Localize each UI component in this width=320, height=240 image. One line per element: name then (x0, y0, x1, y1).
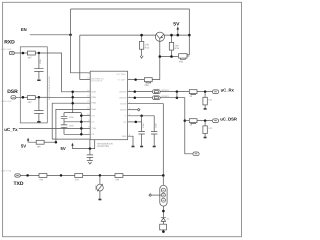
node junction dsr-c (204, 119, 207, 122)
svg-text:R1IN: R1IN (91, 91, 96, 94)
svg-text:GND: GND (122, 135, 127, 138)
resistor R-uCDSR pulldown (204, 121, 206, 137)
svg-text:R2OUT: R2OUT (120, 97, 128, 100)
filter FL1 (152, 90, 160, 94)
wire vertical x70.5 to top rail and down to pin16 (71, 9, 91, 73)
svg-text:10K: 10K (208, 127, 212, 130)
node junction rx-a (134, 90, 137, 93)
node DSR label (7, 89, 18, 95)
svg-text:C1-: C1- (91, 121, 95, 124)
capacitor C-DSR (38, 97, 40, 121)
node junction pullup (55, 141, 58, 144)
svg-text:FB1: FB1 (179, 61, 184, 64)
resistor R-TXD2 (75, 174, 83, 178)
svg-text:100n: 100n (69, 125, 75, 128)
svg-text:R4IN: R4IN (91, 108, 96, 111)
wire RXD into box (23, 52, 28, 54)
wire GND pin corner (128, 136, 133, 146)
filter FL2 (152, 96, 160, 100)
wire VCC pin right (128, 79, 145, 81)
svg-text:5V: 5V (173, 21, 180, 27)
node junction txd-a (26, 174, 29, 177)
node junction rx-c (204, 90, 207, 93)
capacitor C-Vcc (87, 149, 93, 161)
connector pin DSR (11, 96, 16, 99)
svg-text:TXD: TXD (14, 181, 24, 187)
node junction vminus (140, 115, 143, 118)
resistor R-uCRx (189, 90, 197, 94)
node junction tie-5 (80, 121, 83, 124)
svg-text:7: 7 (88, 132, 89, 135)
node TXD label (14, 181, 24, 187)
capacitor C2 pump (61, 122, 68, 135)
node junction 5V (177, 34, 180, 37)
svg-text:12: 12 (87, 100, 89, 103)
wire EN branch corner to chip pin and transistor base (80, 35, 156, 79)
svg-text:uC_DSR: uC_DSR (220, 117, 237, 122)
svg-text:16: 16 (88, 72, 90, 75)
IC U1 right pin labels (120, 91, 128, 139)
node junction jack-gnd (162, 210, 165, 213)
svg-text:R2IN: R2IN (91, 96, 96, 99)
wire row F cap1 bottom (64, 121, 90, 123)
svg-text:T1OUT: T1OUT (120, 103, 128, 106)
IC U1 (90, 71, 127, 140)
wire transistor right to 5V and rail (165, 34, 190, 36)
connector pin aux (193, 152, 199, 156)
connector J2 jack (162, 175, 164, 185)
svg-text:V-: V- (125, 115, 127, 118)
svg-text:13: 13 (87, 95, 89, 98)
capacitor C1 pump (61, 116, 68, 122)
svg-text:10K: 10K (37, 146, 42, 149)
connector pin TXD (15, 174, 20, 177)
resistor R-base (141, 35, 143, 56)
svg-text:470: 470 (115, 179, 120, 182)
wire DSR into box (23, 96, 28, 98)
svg-text:R15: R15 (175, 47, 180, 50)
node junction dsr-a (134, 96, 137, 99)
svg-text:8: 8 (88, 126, 89, 129)
svg-text:9: 9 (88, 119, 89, 122)
svg-text:DSR: DSR (7, 89, 18, 95)
node junction txd-b (60, 174, 63, 177)
svg-text:11: 11 (87, 107, 89, 110)
wire uC_DSR row (185, 120, 190, 122)
svg-text:C2-: C2- (91, 133, 95, 136)
wire top rail (71, 9, 190, 55)
box shield around RXD/DSR filters (20, 47, 47, 123)
svg-text:EN: EN (21, 27, 27, 32)
svg-text:T1IN: T1IN (91, 127, 96, 130)
node junction DSR-a (22, 96, 25, 99)
ground chip right (132, 146, 135, 148)
node junction vcc (134, 78, 137, 81)
node junction power (89, 147, 92, 150)
IC U1 pin numbers (87, 72, 130, 137)
node junction R top (170, 34, 173, 37)
svg-text:DB9-2 RXD: DB9-2 RXD (1, 48, 12, 51)
svg-text:15: 15 (87, 77, 89, 80)
component shell (162, 221, 164, 224)
svg-text:470: 470 (39, 179, 44, 182)
wire uC_Tx row (19, 127, 90, 129)
svg-text:uC_Tx: uC_Tx (4, 127, 18, 132)
svg-text:1K: 1K (190, 95, 193, 98)
resistor R-uCRx pulldown (204, 92, 206, 109)
svg-text:T2OUT: T2OUT (120, 109, 128, 112)
wire T1OUT row to TXD column (128, 104, 164, 176)
resistor R-pullup right (171, 35, 173, 56)
svg-text:R14: R14 (145, 46, 150, 49)
node junction txd-c (99, 174, 102, 177)
node junction R bottom on rail (170, 55, 173, 58)
node junction tie-7 (80, 133, 83, 136)
power 5V pullup arrow (21, 143, 26, 148)
ground under R-uCDSR (204, 137, 207, 139)
ground chip power (87, 161, 93, 165)
node junction tie-3 (71, 102, 74, 105)
wire uC_Rx row (128, 91, 153, 93)
svg-text:100n: 100n (155, 122, 158, 128)
node open diamond (137, 108, 140, 111)
node uC_Tx label (4, 127, 18, 132)
node junction RXD-a (22, 52, 25, 55)
wire tie vertical x72.7 (72, 92, 74, 113)
capacitor C-A (138, 116, 144, 146)
svg-text:C1+: C1+ (91, 115, 96, 118)
node junction DSR-b (38, 96, 41, 99)
node junction RXD-b (38, 52, 41, 55)
node uC_DSR label (220, 117, 237, 122)
net label RXD margin (1, 48, 12, 51)
resistor R-RXD (27, 51, 35, 55)
ground under D1 (98, 199, 101, 201)
IC U1 inner top-left text (91, 73, 126, 83)
connector pin uC_Rx (212, 90, 218, 94)
ground under R-uCRx (204, 108, 207, 110)
power 5V top arrow (173, 21, 180, 27)
connector pin uC_DSR (212, 119, 218, 123)
svg-text:R1OUT: R1OUT (120, 91, 128, 94)
capacitor C-B (151, 132, 157, 146)
svg-text:DB9-6 DSR: DB9-6 DSR (1, 100, 12, 103)
label vertical box text (48, 75, 51, 100)
svg-text:C2-: C2- (123, 121, 127, 124)
node junction tie-6 (80, 127, 83, 130)
wire row E (81, 115, 90, 117)
node junction dsr-row (184, 119, 187, 122)
IC U1 part text (97, 142, 113, 148)
wire chip power stubs (90, 140, 95, 149)
wire row I cap2 bottom (64, 133, 90, 135)
wire V- row (128, 116, 154, 132)
ground under C-DSR (37, 121, 40, 123)
svg-text:V+ CAP: V+ CAP (118, 78, 126, 81)
wire jack bottom (162, 206, 164, 217)
border frame (3, 2, 242, 236)
svg-text:uC_Rx: uC_Rx (221, 88, 235, 93)
node junction EN-rail (69, 34, 72, 37)
node junction rx-b (176, 90, 179, 93)
svg-text:R3IN: R3IN (91, 102, 96, 105)
svg-text:MAX3232ECAI: MAX3232ECAI (97, 142, 113, 145)
resistor R-TXD1 (39, 174, 47, 178)
node junction tie-4 (80, 114, 83, 117)
svg-text:VCC GND: VCC GND (116, 73, 126, 76)
node junction tie-1 (71, 91, 74, 94)
svg-text:DB9-3 TXD: DB9-3 TXD (1, 170, 12, 173)
svg-text:FB2: FB2 (145, 84, 150, 87)
svg-text:INPUT FILTER NETWORK: INPUT FILTER NETWORK (48, 75, 51, 100)
svg-text:14: 14 (87, 89, 89, 92)
svg-text:5V: 5V (21, 143, 26, 148)
connector pin RXD (9, 51, 14, 54)
svg-text:X2: X2 (167, 217, 170, 220)
node junction base resistor (140, 34, 143, 37)
svg-text:EXTCAP 5V: EXTCAP 5V (91, 80, 103, 83)
wire tie vertical x81.3 (80, 113, 82, 135)
diode D1 transil (99, 175, 101, 184)
ferrite FB2 (144, 78, 152, 82)
svg-text:100n: 100n (142, 122, 145, 128)
wire row4 corner (56, 109, 90, 142)
wire uC_DSR source row (128, 97, 153, 99)
ground under C-B (153, 146, 156, 148)
svg-text:100n: 100n (69, 116, 75, 119)
node junction stem-rail (159, 55, 162, 58)
svg-text:RS232TRX: RS232TRX (97, 145, 109, 148)
ground under C-RXD (37, 80, 40, 82)
wire C2- row join (128, 121, 142, 123)
node junction tie-2 (71, 96, 74, 99)
node RXD label (4, 40, 15, 46)
node junction c2m (135, 121, 138, 124)
resistor R-uCDSR (189, 119, 197, 123)
power 5V chip arrow (61, 146, 66, 151)
capacitor C-RXD (38, 53, 40, 79)
node open diamond jack (149, 194, 152, 197)
capacitor C-jack polarized (161, 217, 166, 221)
wire DSR to chip (47, 96, 90, 98)
wire collector stem down and rail y56.5 (160, 41, 178, 79)
wire jack middle to diamond (152, 194, 162, 196)
svg-text:470: 470 (75, 179, 80, 182)
node junction txd-jack (162, 174, 165, 177)
fuse F1 on emitter rail (179, 54, 187, 58)
wire T2OUT stub (128, 109, 138, 111)
net label DSR margin (1, 100, 12, 103)
wire cap stack feed (64, 113, 81, 117)
ground stub under R-base (140, 56, 143, 58)
svg-text:4K7: 4K7 (28, 56, 33, 59)
wire tie rx-dsr (176, 92, 178, 98)
net label TXD margin (1, 170, 12, 173)
resistor R-TXD3 (115, 174, 123, 178)
node junction dsr-b (176, 96, 179, 99)
svg-text:1K: 1K (190, 123, 193, 126)
svg-text:RXD: RXD (4, 40, 15, 46)
resistor R-pullup uCTx (36, 140, 44, 144)
svg-text:10: 10 (87, 113, 89, 116)
svg-text:100n: 100n (39, 58, 42, 64)
svg-text:10K: 10K (208, 99, 212, 102)
resistor R-DSR (27, 96, 35, 100)
ground under C-A (140, 146, 143, 148)
node terminal dot (162, 230, 165, 233)
node EN label (21, 27, 27, 32)
svg-text:4K7: 4K7 (28, 101, 33, 104)
transistor Q1 (155, 32, 164, 41)
wire row3 corner (52, 103, 90, 139)
wire RXD to chip (47, 53, 90, 92)
node junction rail-collector (188, 34, 191, 37)
svg-text:5V: 5V (61, 146, 66, 151)
node uC_Rx label (221, 88, 235, 93)
wire row3 alt join (52, 138, 90, 140)
IC U1 left pin labels (91, 91, 96, 136)
wire EN horizontal (30, 34, 71, 36)
svg-text:SM6T: SM6T (94, 184, 97, 190)
